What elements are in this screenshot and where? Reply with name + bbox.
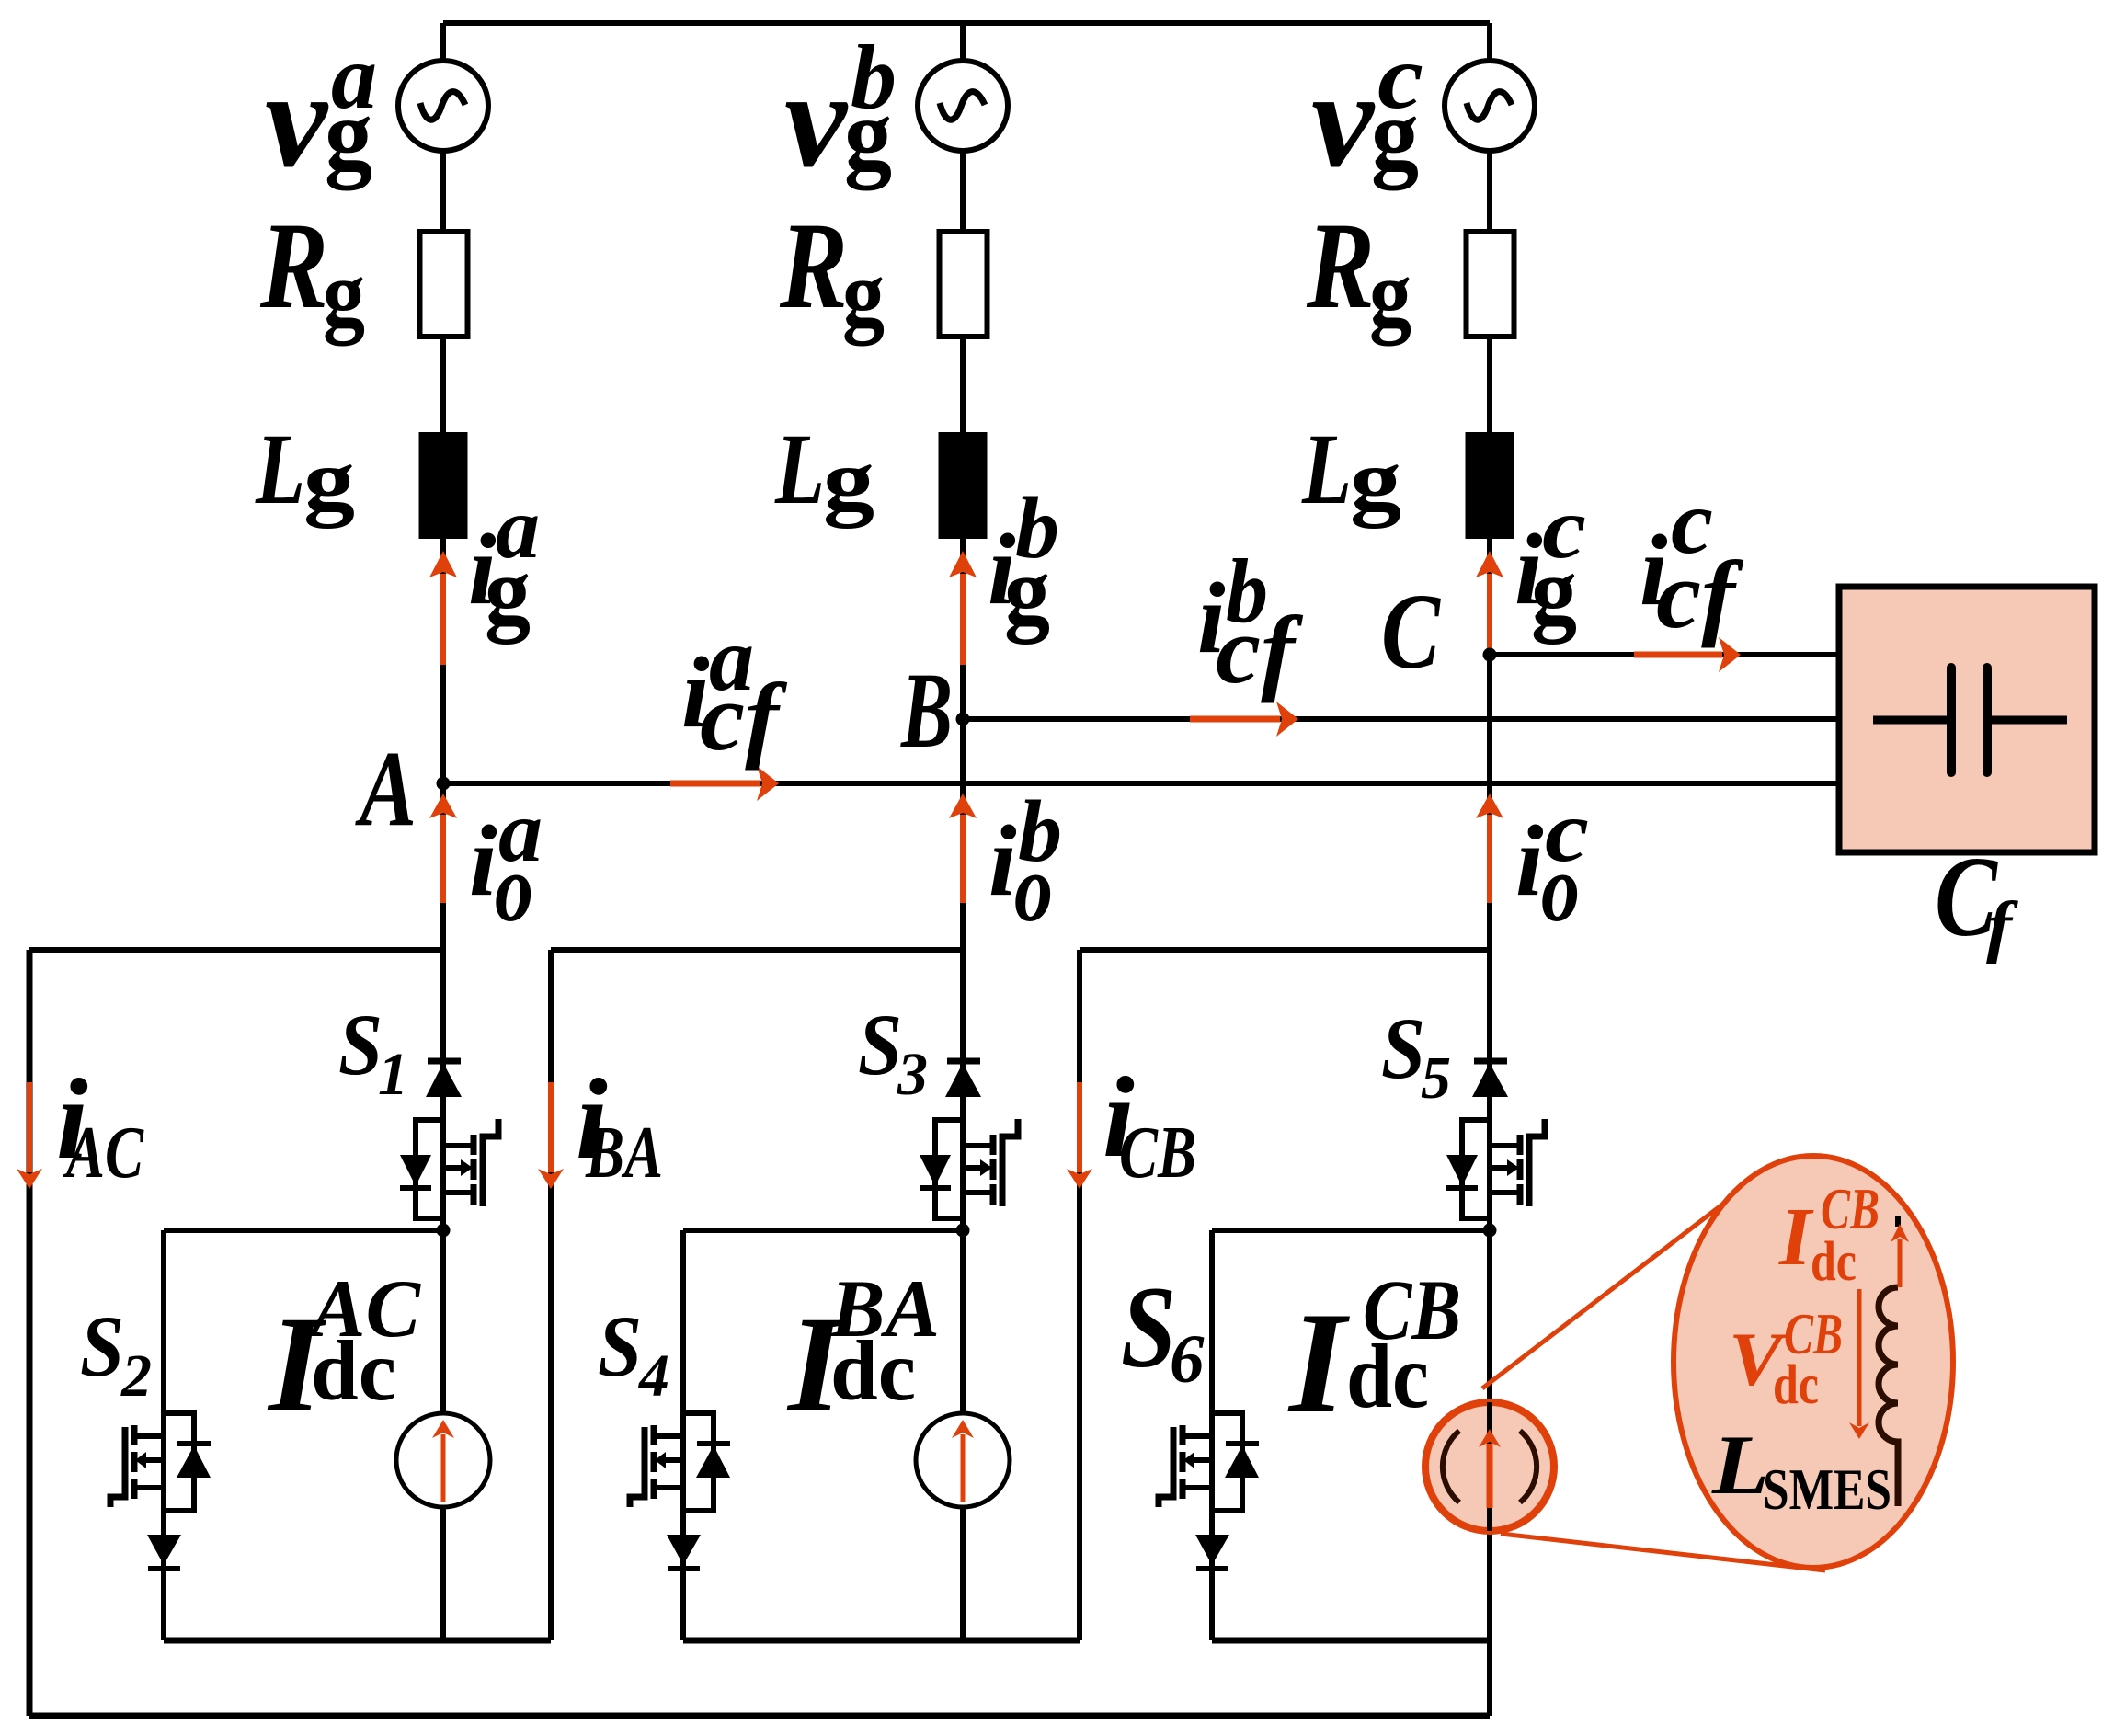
current source Idc^CB arrow [1487, 1444, 1493, 1508]
wire through halo [1487, 1402, 1492, 1531]
svg-text:SMES: SMES [1763, 1456, 1891, 1522]
mosfet S6 arrow shaft [1194, 1457, 1212, 1463]
inductor Lg phase b [939, 432, 988, 539]
wire module1 top rail [29, 947, 443, 953]
svg-text:BA: BA [829, 1264, 940, 1354]
wire source c drop [1487, 23, 1492, 61]
svg-text:i: i [988, 805, 1017, 917]
mosfet S5 channel dash [1517, 1184, 1524, 1205]
svg-text:i: i [469, 805, 497, 917]
mosfet S1 body-diode branch [416, 1120, 443, 1218]
wire S2 leg vertical [161, 1230, 166, 1640]
current arrow icf^c [1634, 652, 1722, 658]
inductor L_SMES coil [1879, 1287, 1898, 1506]
resistor Rg phase b [940, 232, 988, 337]
wire S6 leg vertical [1209, 1230, 1215, 1640]
mosfet S4 arrow shaft [666, 1457, 683, 1463]
svg-text:L: L [1301, 413, 1352, 525]
svg-text:b: b [1018, 782, 1062, 880]
mosfet S3 body diode triangle [920, 1155, 951, 1186]
node C junction [1483, 648, 1497, 662]
svg-text:c: c [1545, 782, 1589, 880]
wire S3 leg vertical [960, 950, 966, 1230]
mosfet S2 arrow head [135, 1452, 146, 1468]
mosfet S2 arrow shaft [146, 1457, 164, 1463]
current arrow icf^a [670, 781, 760, 787]
mosfet S5 channel dash [1517, 1135, 1524, 1155]
AC source vg^c [1445, 61, 1535, 151]
mosfet S3 arrow head [980, 1159, 992, 1176]
wire module2 inner bottom [683, 1638, 1080, 1644]
wire S1 leg vertical [440, 950, 446, 1230]
svg-text:S: S [1121, 1263, 1176, 1392]
AC source vg^b [918, 61, 1008, 151]
svg-text:c: c [1377, 26, 1423, 128]
current arrow icf^b [1190, 716, 1280, 723]
wire module1 inner bottom [164, 1638, 551, 1644]
mosfet S4 channel dash [651, 1452, 657, 1472]
wire module1 inner top [164, 1228, 443, 1233]
mosfet S4 channel dash [651, 1479, 657, 1499]
current source Idc^BA circle [916, 1413, 1010, 1507]
current source Idc^CB right arc [1520, 1431, 1537, 1502]
junction S5-cell node [1483, 1224, 1497, 1238]
wire b Rg to Lg [960, 337, 966, 432]
capacitor Cf right lead [1987, 716, 2067, 725]
mosfet S6 arrow head [1183, 1452, 1194, 1468]
diode triangle S3 [945, 1063, 981, 1097]
svg-text:g: g [842, 242, 885, 347]
inductor L_SMES top terminal [1895, 1216, 1901, 1227]
mosfet S3 channel dash [990, 1159, 997, 1180]
mosfet S3 arrow shaft [963, 1165, 980, 1171]
wire source b drop [960, 23, 966, 61]
svg-text:a: a [498, 782, 543, 880]
mosfet S1 channel dash [471, 1135, 477, 1155]
svg-text:L: L [255, 413, 305, 525]
wire phase b vertical through node B [960, 539, 966, 950]
capacitor Cf left plate [1947, 668, 1956, 772]
AC source vg^a [398, 61, 488, 151]
mosfet S4 body-diode branch [683, 1413, 714, 1511]
svg-text:L: L [1711, 1418, 1769, 1512]
wire a source to Rg [440, 151, 446, 232]
mosfet S2 gate lead [110, 1427, 125, 1507]
mosfet S6 drain stub [1183, 1433, 1212, 1439]
current source Idc^AC arrow [441, 1434, 446, 1502]
mosfet S1 body diode triangle [400, 1155, 431, 1186]
wire source a drop [440, 23, 446, 61]
svg-text:6: 6 [1170, 1321, 1205, 1398]
wire i_BA vertical [548, 950, 554, 1640]
wire phase a vertical through node A [440, 539, 446, 950]
sine symbol vg^b [940, 92, 985, 120]
junction S3-cell node [956, 1224, 970, 1238]
wire riser to module3 inner bottom [1487, 1640, 1492, 1716]
junction S1-cell node [437, 1224, 451, 1238]
current arrow i_BA [548, 1082, 554, 1172]
svg-text:AC: AC [306, 1264, 422, 1354]
mosfet S5 gate lead [1529, 1119, 1545, 1206]
capacitor Cf left lead [1873, 716, 1951, 725]
svg-text:CB: CB [1119, 1113, 1196, 1193]
svg-text:g: g [823, 431, 874, 529]
svg-text:g: g [303, 431, 355, 529]
wire module3 inner top [1212, 1228, 1490, 1233]
current arrow ig^b [960, 574, 966, 665]
svg-text:v: v [265, 43, 328, 196]
diode bar S1 [428, 1058, 461, 1065]
svg-text:L: L [774, 413, 825, 525]
svg-text:CB: CB [1784, 1302, 1843, 1366]
mosfet S3 channel dash [990, 1135, 997, 1155]
svg-text:S: S [858, 996, 902, 1093]
diode triangle S5 [1472, 1063, 1508, 1097]
mosfet S4 gate lead [630, 1427, 645, 1507]
inset magnifier ellipse [1674, 1156, 1953, 1568]
svg-text:f: f [1986, 888, 2019, 965]
diode bar S5 [1474, 1058, 1507, 1065]
inductor Lg phase a [419, 432, 468, 539]
svg-text:CB: CB [1363, 1263, 1461, 1358]
current source Idc^CB left arc [1443, 1431, 1459, 1502]
wire node A bus [443, 781, 1848, 786]
mosfet S6 gate lead [1159, 1427, 1173, 1507]
mosfet S3 drain stub [963, 1143, 993, 1148]
series diode S2 triangle [147, 1535, 181, 1565]
wire top bus [443, 20, 1490, 26]
mosfet S5 body diode bar [1446, 1185, 1478, 1191]
inset tangent line bottom [1501, 1534, 1825, 1570]
mosfet S5 body diode triangle [1446, 1155, 1478, 1186]
svg-text:S: S [338, 996, 383, 1093]
svg-text:v: v [784, 43, 848, 196]
wire node B bus [963, 716, 1848, 722]
sine symbol vg^a [420, 92, 465, 120]
mosfet S2 body diode bar [177, 1441, 211, 1446]
inset halo circle [1425, 1402, 1554, 1531]
inset arrow I_dc up [1898, 1239, 1903, 1287]
mosfet S2 body diode triangle [177, 1445, 211, 1478]
node A junction [437, 777, 451, 791]
mosfet S6 source stub [1183, 1485, 1212, 1490]
svg-text:a: a [709, 608, 754, 710]
svg-text:5: 5 [1421, 1045, 1451, 1112]
mosfet S3 gate lead [1002, 1119, 1018, 1206]
svg-text:A: A [354, 728, 417, 849]
svg-text:S: S [80, 1297, 124, 1395]
mosfet S5 source stub [1490, 1190, 1520, 1195]
wire phase c vertical through node C [1487, 539, 1492, 950]
svg-text:4: 4 [637, 1342, 669, 1410]
current arrow io^c [1487, 815, 1492, 903]
svg-text:a: a [331, 26, 377, 128]
svg-text:CB: CB [1821, 1177, 1880, 1241]
capacitor Cf right plate [1983, 668, 1992, 772]
svg-text:R: R [259, 198, 328, 335]
capacitor filter block Cf [1839, 587, 2095, 852]
wire S4 leg vertical [680, 1230, 686, 1640]
current arrow i_AC [27, 1082, 32, 1172]
resistor Rg phase c [1467, 232, 1514, 337]
mosfet S3 body diode bar [920, 1185, 951, 1191]
mosfet S2 drain stub [134, 1433, 164, 1439]
mosfet S5 arrow shaft [1490, 1165, 1507, 1171]
mosfet S1 drain stub [443, 1143, 474, 1148]
wire outer bottom rail [29, 1713, 1490, 1719]
mosfet S1 channel dash [471, 1184, 477, 1205]
wire module3 top rail [1080, 947, 1490, 953]
mosfet S6 body-diode branch [1212, 1413, 1242, 1511]
current arrow io^a [440, 815, 446, 903]
svg-text:R: R [1306, 198, 1375, 335]
svg-text:b: b [851, 26, 897, 128]
inset tangent line top [1482, 1193, 1738, 1388]
node B junction [956, 713, 970, 726]
svg-text:b: b [1226, 540, 1268, 642]
svg-text:S: S [598, 1297, 642, 1395]
wire module1 current-source leg [440, 1230, 446, 1640]
diode triangle S1 [426, 1063, 462, 1097]
svg-text:g: g [323, 242, 365, 347]
wire S5 leg vertical [1487, 950, 1492, 1230]
mosfet S5 drain stub [1490, 1143, 1520, 1148]
current arrow i_CB [1077, 1082, 1082, 1172]
mosfet S2 body-diode branch [164, 1413, 194, 1511]
mosfet S6 channel dash [1180, 1479, 1186, 1499]
mosfet S1 gate lead [483, 1119, 498, 1206]
current source Idc^AC circle [396, 1413, 490, 1507]
mosfet S4 body diode triangle [696, 1445, 730, 1478]
current arrow io^b [960, 815, 966, 903]
resistor Rg phase a [420, 232, 468, 337]
series diode S2 bar [148, 1566, 180, 1571]
mosfet S1 source stub [443, 1190, 474, 1195]
wire module2 current-source leg [960, 1230, 966, 1640]
mosfet S6 channel dash [1180, 1425, 1186, 1445]
mosfet S1 body diode bar [400, 1185, 431, 1191]
wire c source to Rg [1487, 151, 1492, 232]
inductor Lg phase c [1466, 432, 1514, 539]
wire module2 inner top [683, 1228, 963, 1233]
mosfet S3 source stub [963, 1190, 993, 1195]
mosfet S2 channel dash [131, 1425, 138, 1445]
svg-text:C: C [1381, 571, 1441, 691]
wire i_AC left vertical [27, 950, 33, 1716]
wire c Rg to Lg [1487, 337, 1492, 432]
svg-text:R: R [779, 198, 848, 335]
svg-text:I: I [1287, 1283, 1350, 1444]
wire b source to Rg [960, 151, 966, 232]
inset arrow V_dc down [1857, 1289, 1862, 1426]
mosfet S2 channel dash [131, 1452, 138, 1472]
svg-text:S: S [1381, 999, 1425, 1097]
svg-text:2: 2 [120, 1342, 152, 1410]
svg-text:I: I [1778, 1192, 1814, 1283]
mosfet S5 body-diode branch [1462, 1120, 1490, 1218]
mosfet S4 channel dash [651, 1425, 657, 1445]
svg-text:BA: BA [585, 1113, 663, 1193]
mosfet S1 arrow shaft [443, 1165, 461, 1171]
mosfet S6 channel dash [1180, 1452, 1186, 1472]
current source Idc^BA arrow [961, 1434, 966, 1502]
svg-text:g: g [1369, 242, 1411, 347]
svg-text:g: g [1350, 431, 1401, 529]
mosfet S5 arrow head [1507, 1159, 1519, 1176]
mosfet S4 body diode bar [697, 1441, 730, 1446]
mosfet S2 channel dash [131, 1479, 138, 1499]
series diode S4 triangle [667, 1535, 701, 1565]
mosfet S4 arrow head [655, 1452, 666, 1468]
current arrow ig^a [440, 574, 446, 665]
mosfet S6 body diode triangle [1225, 1445, 1259, 1478]
series diode S4 bar [668, 1566, 700, 1571]
wire node C bus [1490, 652, 1848, 657]
svg-text:v: v [1311, 43, 1375, 196]
svg-text:AC: AC [63, 1113, 144, 1193]
diode bar S3 [947, 1058, 980, 1065]
series diode S6 triangle [1195, 1535, 1229, 1565]
mosfet S3 channel dash [990, 1184, 997, 1205]
svg-text:c: c [1671, 471, 1713, 573]
mosfet S1 channel dash [471, 1159, 477, 1180]
svg-text:b: b [1015, 479, 1059, 577]
mosfet S4 drain stub [654, 1433, 683, 1439]
svg-text:c: c [1542, 479, 1586, 577]
mosfet S2 source stub [134, 1485, 164, 1490]
mosfet S6 body diode bar [1226, 1441, 1259, 1446]
wire module2 top rail [551, 947, 963, 953]
wire a Rg to Lg [440, 337, 446, 432]
current arrow ig^c [1487, 574, 1492, 651]
svg-text:1: 1 [378, 1041, 408, 1108]
mosfet S1 arrow head [461, 1159, 473, 1176]
wire module3 current-source leg [1487, 1230, 1492, 1640]
mosfet S5 channel dash [1517, 1159, 1524, 1180]
series diode S6 bar [1196, 1566, 1228, 1571]
svg-text:3: 3 [897, 1041, 928, 1108]
svg-text:i: i [1515, 805, 1544, 917]
wire module3 inner bottom [1212, 1638, 1490, 1644]
wire i_CB vertical [1077, 950, 1082, 1640]
svg-text:B: B [900, 650, 953, 771]
mosfet S3 body-diode branch [935, 1120, 963, 1218]
mosfet S4 source stub [654, 1485, 683, 1490]
sine symbol vg^c [1467, 92, 1512, 120]
svg-text:a: a [496, 479, 540, 577]
